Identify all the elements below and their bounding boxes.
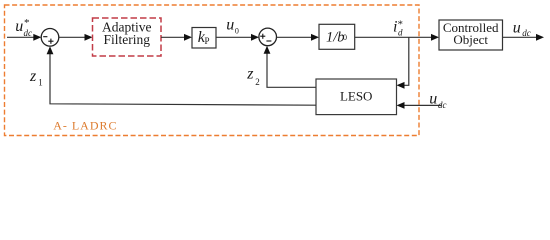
svg-text:u: u [15,18,23,35]
svg-text:u: u [429,90,437,107]
wire summer 1 to Adaptive Filtering [59,36,86,38]
wire Adaptive Filtering to kP [161,36,185,38]
svg-text:z: z [29,68,37,85]
svg-text:P: P [205,36,210,46]
svg-text:0: 0 [343,33,347,42]
wire summer 2 to 1/b0 [277,36,313,38]
svg-text:u: u [513,19,521,36]
wire i*_d branch down into LESO [403,37,409,85]
svg-text:d: d [398,28,403,38]
wire kP to summer 2 [216,36,252,38]
svg-text:1/b: 1/b [326,29,345,45]
svg-text:Object: Object [453,32,488,47]
svg-text:2: 2 [255,77,259,87]
wire u_dc stub into LESO [403,104,442,106]
block LESO [316,79,397,115]
svg-text:u: u [226,16,234,33]
wire z1: LESO left to summer 1 [50,53,316,105]
svg-text:dc: dc [438,100,447,110]
wire input stub to summer 1 [7,36,35,38]
wire Controlled Object output [503,36,538,38]
svg-text:0: 0 [235,27,239,36]
outer dashed box A-LADRC [5,5,420,136]
block Adaptive Filtering (red dashed) [93,18,162,56]
block kP [192,28,216,49]
svg-text:dc: dc [522,28,531,38]
wire z2: LESO left to summer 2 [267,53,316,88]
block 1/b0 [319,24,355,49]
summing junction 1 [41,29,59,47]
block Controlled Object [439,20,503,50]
svg-text:A- LADRC: A- LADRC [53,118,117,132]
svg-text:dc: dc [24,28,33,38]
svg-text:1: 1 [38,78,43,88]
svg-text:LESO: LESO [340,89,373,104]
wire 1/b0 to Controlled Object [355,36,432,38]
summing junction 2 [259,28,277,46]
svg-text:Filtering: Filtering [104,32,151,47]
svg-text:z: z [246,66,254,83]
